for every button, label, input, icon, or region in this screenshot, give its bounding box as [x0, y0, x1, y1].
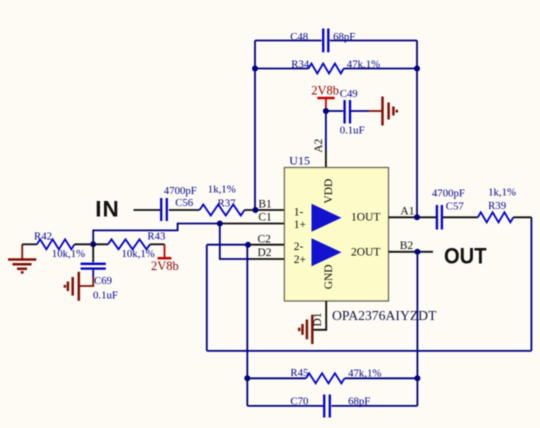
resistor R42	[34, 231, 85, 260]
wire top C48 row right	[330, 40, 417, 42]
svg-text:1k,1%: 1k,1%	[208, 183, 236, 195]
capacitor C49	[340, 88, 365, 137]
wire C57 to R39	[443, 216, 478, 218]
svg-text:R45: R45	[290, 367, 308, 379]
node bias junction	[90, 241, 96, 247]
wire C70 row left	[247, 405, 323, 407]
capacitor C48	[290, 29, 355, 53]
ground right of C49	[383, 97, 397, 126]
capacitor C70	[290, 395, 370, 418]
pin D1 wire	[313, 301, 327, 330]
svg-text:B2: B2	[400, 240, 414, 252]
svg-text:4700pF: 4700pF	[164, 185, 197, 197]
wire top C48 row left	[255, 40, 322, 42]
svg-text:R39: R39	[488, 200, 506, 212]
resistor R45	[290, 367, 381, 383]
wire feedback right vertical	[416, 41, 418, 218]
svg-text:0.1uF: 0.1uF	[340, 124, 365, 136]
svg-text:47k,1%: 47k,1%	[347, 59, 380, 71]
ground at D1 (rotated left)	[299, 315, 312, 344]
svg-text:2+: 2+	[294, 254, 306, 266]
wire C49 left	[326, 110, 343, 112]
svg-text:2V8b: 2V8b	[151, 259, 179, 273]
svg-text:D2: D2	[258, 247, 272, 259]
op-amp triangle 1	[312, 204, 342, 232]
pin B2 wire	[389, 251, 434, 253]
wire feedback left vertical	[254, 41, 256, 211]
svg-text:2-: 2-	[294, 241, 304, 253]
resistor R39	[478, 187, 516, 223]
op-amp triangle 2	[312, 238, 342, 266]
svg-text:R42: R42	[34, 231, 52, 243]
node VDD junction	[323, 108, 329, 114]
node B1 junction	[252, 207, 258, 213]
svg-text:R43: R43	[147, 231, 165, 243]
wire C2 to box	[248, 244, 284, 246]
wire C49 right	[351, 110, 369, 112]
wire C69 top lead	[92, 244, 94, 262]
pin A2 stub	[325, 150, 327, 168]
svg-text:IN: IN	[95, 196, 119, 221]
svg-text:C1: C1	[258, 212, 272, 224]
wire bias junction up and right to C1	[93, 224, 220, 245]
svg-text:C70: C70	[290, 395, 308, 407]
svg-text:VDD: VDD	[323, 179, 335, 204]
svg-text:A2: A2	[313, 138, 325, 152]
node B2 junction	[414, 249, 420, 255]
wire loop left vertical	[246, 245, 248, 406]
node C1 junction	[217, 221, 223, 227]
wire ground to R42	[22, 243, 37, 245]
svg-text:D1: D1	[312, 312, 324, 326]
power 2V8b bias	[151, 244, 179, 273]
wire R34 row left	[255, 68, 309, 70]
node C2 junction	[245, 242, 251, 248]
wire C69 bottom lead	[92, 270, 94, 277]
resistor R37	[200, 183, 245, 215]
svg-text:68pF: 68pF	[348, 395, 370, 407]
svg-text:C48: C48	[290, 31, 308, 43]
svg-text:4700pF: 4700pF	[432, 187, 465, 199]
wire C1 row to box	[220, 223, 285, 225]
wire R34 row right	[344, 68, 417, 70]
wire C2 left vertical down to long route	[206, 245, 208, 351]
capacitor C57	[432, 187, 465, 229]
wire R37 to pin B1	[245, 209, 285, 211]
svg-text:GND: GND	[323, 264, 335, 289]
svg-text:47k,1%: 47k,1%	[348, 367, 381, 379]
wire C56 to R37	[169, 209, 200, 211]
svg-text:C57: C57	[446, 201, 465, 213]
wire B2 down to bottom loop	[416, 252, 418, 406]
wire R39 to corner	[513, 216, 531, 218]
wire R43 to 2V8b	[150, 243, 165, 245]
svg-text:68pF: 68pF	[333, 31, 355, 43]
resistor R43	[108, 231, 165, 260]
svg-text:U15: U15	[289, 154, 310, 168]
wire C70 row right	[331, 405, 417, 407]
wire VDD down to pin A2	[325, 111, 327, 150]
wire R45 row left	[247, 377, 306, 379]
svg-text:1+: 1+	[294, 219, 306, 231]
wire R45 row right	[345, 377, 418, 379]
svg-text:1-: 1-	[294, 207, 304, 219]
svg-text:10k,1%: 10k,1%	[122, 248, 155, 260]
svg-text:10k,1%: 10k,1%	[52, 248, 85, 260]
op-amp U15 body	[284, 154, 388, 302]
wire C1 junction down to D2 row	[220, 224, 250, 260]
wire right vertical up to R39	[530, 217, 532, 351]
node A1 junction	[414, 214, 420, 220]
power 2V8b top	[311, 84, 339, 112]
svg-text:2V8b: 2V8b	[311, 84, 339, 98]
node R45 left	[244, 375, 250, 381]
wire long bottom route	[207, 350, 532, 352]
ground below C69 (rotated left)	[65, 272, 79, 301]
svg-text:OPA2376AIYZDT: OPA2376AIYZDT	[332, 308, 437, 323]
svg-text:2OUT: 2OUT	[351, 246, 380, 258]
wire R42 to junction	[75, 243, 109, 245]
svg-text:C56: C56	[175, 197, 194, 209]
svg-text:A1: A1	[400, 206, 414, 218]
capacitor C69	[81, 264, 118, 302]
node R45 right	[414, 375, 420, 381]
svg-text:C69: C69	[94, 275, 112, 287]
svg-text:1OUT: 1OUT	[351, 212, 380, 224]
svg-text:B1: B1	[258, 198, 272, 210]
svg-text:C2: C2	[258, 233, 272, 245]
svg-text:OUT: OUT	[444, 244, 487, 269]
svg-text:R37: R37	[218, 198, 237, 210]
svg-text:1k,1%: 1k,1%	[488, 187, 516, 199]
wire C2 row	[207, 244, 248, 246]
pin A1 wire	[389, 216, 436, 218]
svg-text:C49: C49	[340, 88, 358, 100]
node top loop right	[414, 66, 420, 72]
wire IN stub	[134, 209, 161, 211]
node top loop left	[252, 66, 258, 72]
capacitor C56	[161, 185, 197, 221]
svg-text:R34: R34	[291, 58, 310, 70]
svg-text:0.1uF: 0.1uF	[93, 290, 118, 302]
ground left of R42	[8, 244, 36, 272]
resistor R34	[291, 58, 380, 73]
